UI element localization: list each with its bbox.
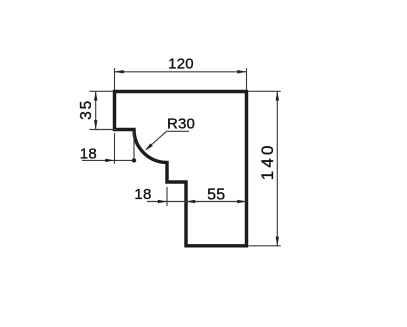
leader line R30 diagonal [146,131,166,149]
extension line below F corner (18 lower dim) [166,187,168,206]
profile outline of molding [115,92,247,246]
leader underline R30 [167,130,190,132]
svg-text:120: 120 [168,56,194,73]
tangent extension from arc start down to virtual corner [133,131,135,160]
extension line below left step (18 upper dim) [114,133,116,164]
extension line top-left vertical (120 dim, left) [114,68,116,90]
extension line left top horizontal (35 dim) [90,90,114,92]
extension line right bottom horizontal (140 dim) [249,245,281,247]
dimension line 35 [95,91,97,129]
dimension line 120 [115,71,247,73]
svg-text:140: 140 [258,142,277,180]
dimension line 18 lower + 55 [147,201,247,203]
dot at virtual corner (18 upper dim terminator) [132,158,136,162]
extension line right top horizontal (140 dim) [249,90,281,92]
svg-text:R30: R30 [167,116,195,133]
extension line left lower horizontal (35 dim) [90,129,117,131]
svg-text:35: 35 [78,99,95,120]
dimension line 18 upper [82,159,134,161]
svg-text:55: 55 [207,187,225,204]
extension line top-right vertical (120 dim, right) [246,68,248,90]
svg-text:18: 18 [80,146,97,163]
dimension line 140 [276,91,278,246]
svg-text:18: 18 [134,186,151,203]
